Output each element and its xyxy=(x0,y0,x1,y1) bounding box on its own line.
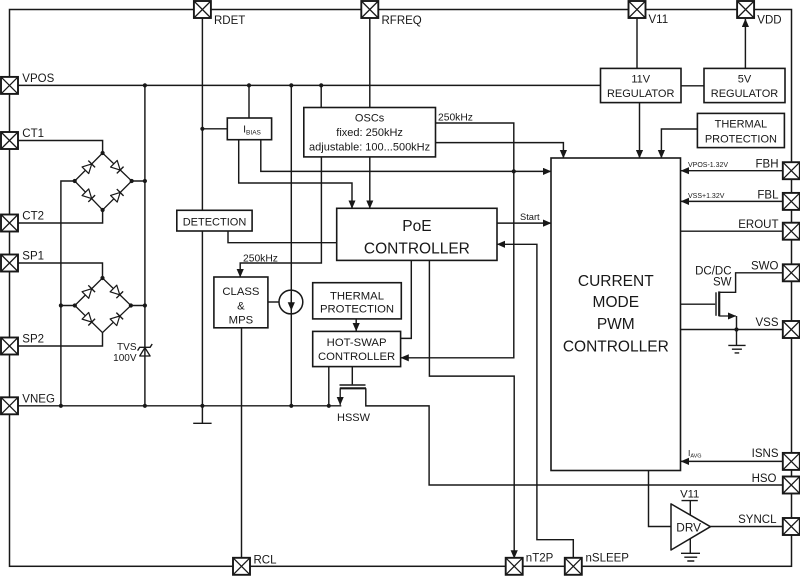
block hot-swap controller box xyxy=(313,331,401,366)
node 250kHz junction xyxy=(512,169,516,173)
wire VPOS rail xyxy=(18,84,601,86)
node VPOS-IBIAS xyxy=(247,83,251,87)
svg-text:CURRENT: CURRENT xyxy=(578,273,654,290)
wire V11 pin to 11V regulator xyxy=(636,18,638,68)
wire OSC top to VPOS rail xyxy=(320,85,322,156)
svg-text:250kHz: 250kHz xyxy=(243,253,278,264)
TVS diode 100V xyxy=(138,344,153,356)
svg-text:RCL: RCL xyxy=(254,555,278,567)
svg-text:MODE: MODE xyxy=(593,294,640,311)
svg-text:VSS: VSS xyxy=(755,317,778,329)
wire VPOS vertical through current source xyxy=(290,85,292,405)
svg-text:RFREQ: RFREQ xyxy=(382,15,422,27)
wire EROUT xyxy=(681,230,783,232)
node bridge1 right bus xyxy=(143,179,147,183)
svg-text:CT1: CT1 xyxy=(22,128,44,140)
wire CLASS MPS to current source xyxy=(268,301,279,303)
wire PWM gate to DC/DC SW xyxy=(681,303,715,305)
svg-text:VDD: VDD xyxy=(757,15,781,27)
svg-text:VPOS-1.32V: VPOS-1.32V xyxy=(688,162,728,169)
wire DC/DC SW drain to SWO xyxy=(719,273,783,293)
diode D7 bridge2 left-bottom xyxy=(82,312,95,325)
svg-text:SYNCL: SYNCL xyxy=(738,514,777,526)
wire HSSW drain to HSO xyxy=(366,388,783,485)
svg-text:PWM: PWM xyxy=(597,316,635,333)
svg-text:REGULATOR: REGULATOR xyxy=(711,88,778,100)
wire 5V regulator to VDD pin xyxy=(744,19,746,68)
svg-text:THERMAL: THERMAL xyxy=(330,290,384,302)
wire right bridge bus VPOS to TVS to VNEG xyxy=(131,85,145,405)
wire SP2 to bridge2 bottom xyxy=(18,333,103,346)
wire RDET vertical xyxy=(201,18,203,406)
block 11V regulator box xyxy=(601,68,682,102)
diode D5 bridge2 left-top xyxy=(82,285,95,298)
node VNEG-current source xyxy=(289,404,293,408)
svg-text:REGULATOR: REGULATOR xyxy=(607,88,674,100)
svg-text:11V: 11V xyxy=(631,73,650,85)
pin CT2 xyxy=(1,215,18,232)
pin FBH xyxy=(783,162,800,179)
svg-text:VSS+1.32V: VSS+1.32V xyxy=(688,193,725,200)
svg-text:CT2: CT2 xyxy=(22,210,44,222)
pin VDD xyxy=(737,1,754,18)
svg-text:MPS: MPS xyxy=(229,315,254,327)
wire SP1 to bridge2 top xyxy=(18,263,103,278)
svg-text:V11: V11 xyxy=(680,489,699,501)
V11 supply bar of DRV xyxy=(682,501,698,516)
wire PoE to nT2P xyxy=(429,261,514,559)
node bridge2 right xyxy=(129,303,133,307)
node VNEG-left bus xyxy=(59,404,63,408)
node VSS source xyxy=(734,327,738,331)
wire DETECTION to PoE xyxy=(228,231,337,243)
node VPOS-current source xyxy=(289,83,293,87)
transistor HSSW gate bar xyxy=(340,384,366,386)
wire OSC 250kHz out to hot-swap feed xyxy=(401,123,514,358)
transistor HSSW channel bar xyxy=(340,387,366,389)
diode D4 bridge1 bottom-right xyxy=(111,189,124,202)
ground below DC/DC SW source xyxy=(728,330,745,353)
block thermal protection mid box xyxy=(313,283,402,319)
wire FBL to PWM xyxy=(681,200,783,202)
ground below DRV xyxy=(681,538,700,561)
svg-text:V11: V11 xyxy=(649,14,669,26)
pin HSO xyxy=(783,477,800,494)
transistor HSSW source with arrow to VNEG xyxy=(339,388,341,405)
node RDET-IBIAS xyxy=(200,127,204,131)
pin VNEG xyxy=(1,397,18,414)
wire left bridge bus to VNEG xyxy=(61,181,75,406)
svg-text:CONTROLLER: CONTROLLER xyxy=(563,338,669,355)
svg-text:EROUT: EROUT xyxy=(738,219,778,231)
svg-text:SP2: SP2 xyxy=(22,333,44,345)
node VNEG-RDET xyxy=(200,404,204,408)
node bridge2 left xyxy=(73,303,77,307)
svg-text:&: & xyxy=(237,300,245,312)
wire RFREQ vertical into OSC and to PoE xyxy=(369,18,371,208)
node VNEG-hotswap xyxy=(327,404,331,408)
svg-text:HOT-SWAP: HOT-SWAP xyxy=(327,337,387,349)
pin VPOS xyxy=(1,77,18,94)
node bridge1 left xyxy=(73,179,77,183)
svg-text:FBH: FBH xyxy=(756,159,779,171)
node VPOS-bridge bus xyxy=(143,83,147,87)
node VNEG-right bus xyxy=(143,404,147,408)
svg-text:FBL: FBL xyxy=(757,189,779,201)
diode D8 bridge2 bottom-right xyxy=(110,313,123,326)
node bridge2 top xyxy=(100,276,104,280)
block OSCs box xyxy=(304,108,436,157)
BLOCKS xyxy=(177,68,785,470)
node bridge2 right bus xyxy=(143,303,147,307)
pin V11 xyxy=(629,1,646,18)
wire VSS from PWM to pin xyxy=(681,329,783,331)
svg-text:SWO: SWO xyxy=(751,260,779,272)
BRIDGES xyxy=(75,153,132,333)
svg-text:ISNS: ISNS xyxy=(752,448,779,460)
diode D3 bridge1 left-bottom xyxy=(82,189,95,202)
pin nSLEEP xyxy=(565,558,582,575)
pin SP2 xyxy=(1,338,18,355)
svg-text:CONTROLLER: CONTROLLER xyxy=(364,241,470,258)
svg-text:nT2P: nT2P xyxy=(526,553,554,565)
wire IBIAS left to RDET xyxy=(202,128,227,130)
svg-text:100V: 100V xyxy=(113,353,137,364)
transistor DC/DC SW source arrow xyxy=(719,315,736,317)
svg-text:DRV: DRV xyxy=(676,521,701,535)
pin SYNCL xyxy=(783,518,800,535)
bridge 2 diamond xyxy=(75,278,131,333)
bridge 1 diamond xyxy=(75,153,132,210)
pin RDET xyxy=(194,1,211,18)
diode D1 bridge1 left-top xyxy=(82,161,95,174)
block 5V regulator box xyxy=(704,68,785,102)
pin EROUT xyxy=(783,223,800,240)
op-amp DRV triangle xyxy=(671,504,710,550)
svg-text:CONTROLLER: CONTROLLER xyxy=(318,351,395,363)
pin nT2P xyxy=(506,558,523,575)
wire HOT-SWAP gate of HSSW xyxy=(351,367,353,385)
diode D6 bridge2 top-right xyxy=(110,285,123,298)
wire HOT-SWAP bottom to VNEG xyxy=(328,367,330,406)
diode D2 bridge1 top-right xyxy=(111,160,124,173)
svg-text:VNEG: VNEG xyxy=(22,393,55,405)
wire FBH to PWM xyxy=(681,170,783,172)
svg-text:SW: SW xyxy=(713,276,732,288)
wire IBIAS top xyxy=(248,85,250,118)
node bridge1 top xyxy=(101,151,105,155)
svg-text:CLASS: CLASS xyxy=(222,286,260,298)
wire Start PoE to PWM xyxy=(497,222,551,224)
node bridge2 left bus xyxy=(59,303,63,307)
block current mode PWM controller box xyxy=(551,158,681,471)
wire RCL from CLASS MPS bottom xyxy=(241,328,243,558)
node bridge1 bottom xyxy=(101,208,105,212)
svg-text:5V: 5V xyxy=(738,73,752,85)
wire thermal protection to PWM top xyxy=(661,129,697,158)
wire THERMAL mid to HOT-SWAP xyxy=(355,319,357,331)
svg-text:HSSW: HSSW xyxy=(337,412,371,424)
block thermal protection top box xyxy=(697,113,784,147)
svg-text:HSO: HSO xyxy=(752,473,777,485)
current source arrow xyxy=(290,293,292,310)
pin SP1 xyxy=(1,255,18,272)
wire VNEG rail xyxy=(18,405,341,407)
ground tick on VNEG xyxy=(193,406,211,424)
svg-text:Start: Start xyxy=(520,212,540,222)
wire PoE to HOT-SWAP right xyxy=(401,261,412,339)
transistor DC/DC SW gate bar xyxy=(715,292,717,316)
pin CT1 xyxy=(1,132,18,149)
block IBIAS box xyxy=(227,118,271,140)
svg-text:THERMAL: THERMAL xyxy=(715,119,768,131)
svg-text:DETECTION: DETECTION xyxy=(183,216,247,228)
wire CT2 to bridge1 bottom xyxy=(18,210,103,223)
wire nSLEEP to PoE right xyxy=(497,244,573,558)
wire 11V regulator to PWM top xyxy=(639,103,641,158)
current source circle xyxy=(279,290,303,314)
svg-text:250kHz: 250kHz xyxy=(438,113,473,124)
wire DC/DC SW source to VSS xyxy=(736,316,738,330)
wire ISNS to PWM xyxy=(681,460,783,462)
svg-text:PROTECTION: PROTECTION xyxy=(320,304,394,316)
wire OSC 250kHz down to CLASS MPS xyxy=(240,157,321,277)
pin RCL xyxy=(233,558,250,575)
block PoE controller box xyxy=(337,208,497,260)
wire IBIAS out to PWM left xyxy=(261,140,551,172)
svg-text:RDET: RDET xyxy=(214,15,245,27)
svg-text:fixed: 250kHz: fixed: 250kHz xyxy=(336,127,403,139)
node bridge1 right xyxy=(130,179,134,183)
wire OSC out to PWM top xyxy=(436,143,564,158)
svg-text:nSLEEP: nSLEEP xyxy=(586,553,630,565)
node VPOS-OSC xyxy=(319,83,323,87)
wire CT1 to bridge1 top xyxy=(18,141,103,154)
block DETECTION box xyxy=(177,210,252,231)
svg-text:VPOS: VPOS xyxy=(22,73,54,85)
svg-text:TVS: TVS xyxy=(117,342,137,353)
wire 11V to 5V regulator link xyxy=(681,85,704,87)
wire PWM bottom to DRV input xyxy=(649,471,672,527)
svg-text:OSCs: OSCs xyxy=(355,113,385,125)
svg-text:PoE: PoE xyxy=(402,218,431,235)
wire IBIAS out to PoE top xyxy=(239,140,352,209)
svg-text:adjustable: 100...500kHz: adjustable: 100...500kHz xyxy=(309,142,430,154)
pin RFREQ xyxy=(361,1,378,18)
wire DRV output to SYNCL xyxy=(710,526,783,528)
block CLASS MPS box xyxy=(214,277,268,328)
pin VSS xyxy=(783,321,800,338)
svg-text:PROTECTION: PROTECTION xyxy=(705,133,777,145)
pin FBL xyxy=(783,193,800,210)
svg-text:SP1: SP1 xyxy=(22,250,44,262)
pin SWO xyxy=(783,264,800,281)
transistor DC/DC SW channel bar xyxy=(718,291,720,316)
pin ISNS xyxy=(783,453,800,470)
